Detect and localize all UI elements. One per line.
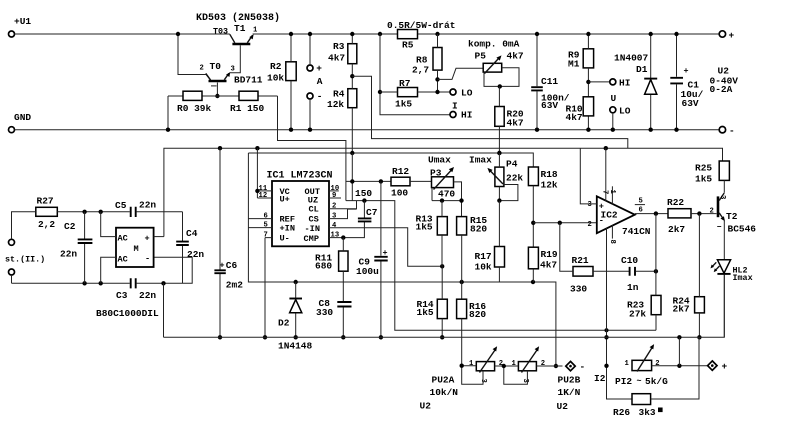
- potentiometer PU2A: [476, 362, 494, 371]
- svg-text:2: 2: [710, 208, 714, 216]
- wire R8 column: [437, 34, 439, 92]
- svg-text:R26: R26: [613, 407, 630, 418]
- svg-text:C7: C7: [366, 207, 378, 218]
- wire R1 to IC1 OUT column: [278, 96, 346, 201]
- svg-text:R21: R21: [572, 255, 589, 266]
- svg-text:+IN: +IN: [280, 224, 295, 234]
- svg-text:680: 680: [315, 261, 332, 272]
- svg-text:330: 330: [570, 284, 587, 295]
- resistor R27: [36, 207, 58, 216]
- svg-text:C10: C10: [621, 255, 638, 266]
- wire CL/CS node line: [346, 201, 656, 331]
- diode D2: [295, 282, 297, 337]
- svg-text:R1 150: R1 150: [230, 103, 265, 114]
- terminal + output: [719, 31, 725, 37]
- svg-text:22n: 22n: [187, 249, 204, 260]
- resistor R19: [528, 247, 538, 269]
- wire HI tap column: [380, 34, 450, 115]
- svg-text:CL: CL: [309, 204, 319, 214]
- terminal LO (voltage): [610, 107, 616, 113]
- resistor R11: [339, 251, 348, 271]
- svg-text:+: +: [722, 361, 728, 372]
- wire IC2 +in from bus: [580, 148, 597, 204]
- wire P3 bracket: [432, 182, 462, 217]
- svg-text:I2: I2: [594, 373, 606, 384]
- svg-text:st.(II.): st.(II.): [5, 255, 45, 265]
- capacitor C5: [131, 207, 136, 217]
- svg-text:HI: HI: [461, 110, 472, 121]
- svg-text:2: 2: [588, 221, 592, 229]
- svg-text:150: 150: [355, 188, 372, 199]
- svg-text:R18: R18: [541, 169, 558, 180]
- svg-text:22k: 22k: [506, 173, 523, 184]
- svg-text:-: -: [580, 362, 586, 373]
- svg-text:3: 3: [231, 66, 235, 74]
- resistor R13: [437, 217, 447, 235]
- wire AC1 to bridge: [101, 212, 116, 237]
- svg-text:T1: T1: [234, 23, 246, 34]
- svg-text:Imax: Imax: [469, 155, 492, 166]
- wire AC2 to bridge: [101, 257, 116, 283]
- terminal st input bottom: [9, 269, 15, 275]
- svg-text:-: -: [599, 216, 604, 226]
- potentiometer PU2B: [518, 362, 536, 371]
- svg-text:3: 3: [588, 201, 592, 209]
- wire R9-R10 column: [587, 34, 589, 130]
- svg-text:63V: 63V: [682, 98, 699, 109]
- svg-text:D2: D2: [278, 318, 290, 329]
- svg-text:6: 6: [264, 213, 268, 221]
- capacitor C11: [536, 34, 538, 130]
- svg-text:T0: T0: [210, 61, 222, 72]
- svg-text:2k7: 2k7: [673, 304, 690, 315]
- svg-text:T2: T2: [726, 211, 738, 222]
- wire REF/+IN column and sense line y282: [248, 153, 556, 366]
- svg-text:-: -: [145, 254, 150, 264]
- svg-text:100u: 100u: [356, 266, 379, 277]
- potentiometer P5: [483, 63, 502, 72]
- svg-text:LO: LO: [461, 88, 473, 99]
- svg-text:C4: C4: [186, 228, 198, 239]
- svg-text:2,7: 2,7: [412, 65, 429, 76]
- svg-text:1N4007: 1N4007: [614, 53, 649, 64]
- capacitor C9: [380, 181, 382, 337]
- svg-text:8: 8: [608, 240, 616, 244]
- svg-text:7: 7: [601, 190, 609, 194]
- transistor T1: [232, 43, 250, 46]
- resistor R7: [398, 88, 418, 97]
- svg-text:D1: D1: [636, 64, 648, 75]
- wire to HI terminal: [588, 81, 609, 83]
- wire ref bus y153: [248, 153, 533, 167]
- pin 1 IC2: [611, 186, 613, 204]
- terminal +U1: [9, 31, 15, 37]
- svg-text:-: -: [317, 91, 323, 102]
- wire P5 wiper bracket: [484, 68, 519, 87]
- transistor T0: [209, 80, 227, 83]
- svg-text:R7: R7: [399, 78, 411, 89]
- svg-text:R19: R19: [541, 249, 558, 260]
- wire PU2A feed and bracket: [462, 366, 483, 385]
- resistor R20: [495, 107, 504, 127]
- svg-text:BC546: BC546: [728, 224, 757, 235]
- wire top rail right of T1: [253, 33, 720, 35]
- resistor R0: [183, 91, 202, 100]
- capacitor C2: [84, 212, 86, 283]
- svg-text:1K/N: 1K/N: [558, 387, 581, 398]
- svg-text:HI: HI: [619, 78, 630, 89]
- LED HL2: [723, 221, 725, 337]
- pin 4 IC2 down to minus bus and PI2: [607, 228, 633, 399]
- svg-text:2m2: 2m2: [226, 280, 243, 291]
- svg-text:C3: C3: [116, 290, 128, 301]
- terminal A minus: [307, 93, 313, 99]
- svg-text:GND: GND: [14, 112, 31, 123]
- svg-text:R3: R3: [333, 41, 345, 52]
- svg-text:IC1 LM723CN: IC1 LM723CN: [267, 171, 333, 182]
- svg-text:PU2B: PU2B: [558, 375, 581, 386]
- svg-text:1k5: 1k5: [416, 222, 433, 233]
- potentiometer PI2: [632, 360, 652, 370]
- capacitor C3: [131, 278, 136, 288]
- wire input bottom: [12, 257, 193, 283]
- svg-text:2k7: 2k7: [668, 224, 685, 235]
- resistor R26: [632, 394, 651, 405]
- wire GND rail: [15, 129, 720, 131]
- svg-text:2,2: 2,2: [38, 219, 55, 230]
- svg-text:4k7: 4k7: [328, 53, 345, 64]
- capacitor C4: [182, 212, 184, 283]
- IC1 op-amp regulator LM723CN: [272, 181, 329, 246]
- resistor R21: [573, 267, 593, 277]
- pin 7 IC2: [605, 148, 607, 201]
- terminal GND: [9, 127, 15, 133]
- wire bridge plus: [154, 236, 164, 238]
- wire T0 collector feed: [178, 34, 211, 80]
- wire R2 column: [290, 34, 292, 130]
- capacitor C8: [342, 271, 344, 337]
- svg-text:12k: 12k: [327, 99, 344, 110]
- svg-text:27k: 27k: [629, 309, 646, 320]
- resistor R4: [348, 89, 357, 108]
- svg-text:R12: R12: [392, 166, 409, 177]
- capacitor C6: [219, 148, 221, 337]
- wire T1 base to T0 emitter: [230, 45, 241, 73]
- svg-text:T03: T03: [213, 27, 228, 37]
- terminal - output: [719, 127, 725, 133]
- svg-text:2: 2: [332, 203, 336, 211]
- svg-text:1N4148: 1N4148: [278, 341, 313, 352]
- svg-text:+: +: [316, 63, 322, 74]
- wire P4 wiper bracket: [499, 185, 518, 201]
- svg-text:4k7: 4k7: [540, 260, 557, 271]
- svg-text:B80C1000DIL: B80C1000DIL: [96, 308, 159, 319]
- svg-text:1k5: 1k5: [417, 307, 434, 318]
- svg-text:9: 9: [332, 192, 336, 200]
- terminal HI (current): [450, 112, 456, 118]
- svg-text:10k/N: 10k/N: [430, 387, 459, 398]
- resistor R3: [348, 44, 357, 64]
- wire IC2 inverting input line: [533, 222, 597, 224]
- svg-text:komp. 0mA: komp. 0mA: [468, 39, 520, 50]
- svg-text:PU2A: PU2A: [432, 375, 455, 386]
- svg-text:820: 820: [470, 224, 487, 235]
- svg-text:820: 820: [469, 309, 486, 320]
- svg-text:R4: R4: [333, 89, 345, 100]
- svg-text:-: -: [729, 126, 735, 137]
- svg-text:1: 1: [253, 27, 258, 35]
- wire R0 left leg: [167, 96, 169, 130]
- svg-text:3: 3: [718, 195, 726, 199]
- svg-text:5: 5: [264, 222, 268, 230]
- resistor R18: [528, 167, 538, 186]
- svg-text:M1: M1: [568, 59, 580, 70]
- svg-text:+: +: [220, 261, 225, 271]
- resistor R14: [437, 299, 447, 318]
- wire LO to GND: [612, 113, 614, 130]
- svg-text:330: 330: [316, 307, 333, 318]
- wire top rail left: [15, 33, 230, 35]
- wire A terminals: [309, 34, 311, 130]
- op-amp IC2 741CN: [597, 196, 635, 233]
- svg-text:+U1: +U1: [14, 16, 31, 27]
- terminal minus sense: [566, 361, 575, 370]
- svg-text:7: 7: [264, 232, 268, 240]
- svg-text:5k/G: 5k/G: [645, 376, 668, 387]
- svg-text:4k7: 4k7: [566, 112, 583, 123]
- svg-text:1k5: 1k5: [695, 174, 712, 185]
- terminal HI (voltage): [610, 79, 616, 85]
- wire R20 column: [498, 86, 500, 153]
- wire R7 row: [380, 91, 450, 93]
- svg-text:+: +: [729, 30, 735, 41]
- resistor R10: [583, 97, 593, 116]
- svg-text:10k: 10k: [267, 73, 284, 84]
- svg-text:+: +: [684, 66, 689, 76]
- svg-text:R5: R5: [402, 40, 414, 51]
- svg-text:C6: C6: [226, 260, 238, 271]
- resistor R2: [286, 62, 296, 81]
- wire input top: [12, 212, 183, 240]
- svg-text:22n: 22n: [139, 290, 156, 301]
- wire PU2A to PU2B: [495, 366, 528, 384]
- svg-text:P5: P5: [475, 51, 487, 62]
- resistor R5: [398, 30, 418, 39]
- svg-text:12: 12: [259, 192, 268, 200]
- diode D1: [650, 34, 652, 130]
- svg-text:AC: AC: [118, 234, 128, 244]
- resistor R9: [583, 49, 593, 68]
- svg-text:22n: 22n: [60, 249, 77, 260]
- svg-text:22n: 22n: [139, 200, 156, 211]
- svg-text:63V: 63V: [541, 100, 558, 111]
- transistor T2: [717, 196, 720, 217]
- resistor R23: [651, 295, 661, 314]
- svg-text:10k: 10k: [475, 262, 492, 273]
- wire IC2 output: [635, 213, 668, 215]
- resistor R24: [695, 297, 705, 313]
- svg-text:Imax: Imax: [733, 273, 753, 283]
- svg-text:-IN: -IN: [305, 224, 320, 234]
- svg-text:P4: P4: [506, 159, 518, 170]
- resistor R15: [457, 217, 467, 235]
- svg-text:4: 4: [332, 222, 337, 230]
- svg-text:CMP: CMP: [304, 234, 319, 244]
- resistor R25: [719, 161, 729, 180]
- wire T0 base: [216, 83, 218, 97]
- wire +raw bus y148: [164, 148, 723, 236]
- svg-text:100: 100: [391, 188, 408, 199]
- svg-text:P3: P3: [430, 167, 442, 178]
- svg-text:0.5R/5W-drát: 0.5R/5W-drát: [387, 20, 455, 31]
- svg-text:M: M: [134, 244, 139, 254]
- svg-text:4k7: 4k7: [507, 51, 524, 62]
- svg-text:C5: C5: [115, 200, 127, 211]
- wire R3/R4 junction to bus: [352, 76, 628, 148]
- svg-text:4k7: 4k7: [507, 118, 524, 129]
- resistor R12: [391, 177, 410, 186]
- svg-text:741CN: 741CN: [622, 226, 651, 237]
- svg-text:A: A: [317, 76, 323, 87]
- wire PU2B to terminal: [536, 365, 562, 367]
- svg-text:+: +: [599, 202, 604, 212]
- svg-text:R27: R27: [37, 196, 54, 207]
- svg-text:2: 2: [200, 65, 204, 73]
- svg-text:R22: R22: [667, 197, 684, 208]
- svg-text:R2: R2: [270, 61, 282, 72]
- wire PI2 to plus terminal: [652, 365, 709, 367]
- svg-text:0-2A: 0-2A: [710, 84, 733, 95]
- capacitor C7: [363, 201, 365, 218]
- wire R3-R4 column: [351, 34, 353, 153]
- svg-text:R25: R25: [695, 163, 712, 174]
- svg-text:12k: 12k: [541, 180, 558, 191]
- svg-text:3: 3: [332, 213, 336, 221]
- potentiometer P4: [495, 167, 504, 186]
- svg-text:PI2: PI2: [615, 376, 632, 387]
- bridge rectifier B80C1000DIL: [116, 228, 154, 267]
- svg-text:R0 39k: R0 39k: [177, 103, 212, 114]
- resistor R1: [239, 91, 258, 100]
- svg-text:KD503 (2N5038): KD503 (2N5038): [196, 12, 280, 24]
- resistor R16: [457, 299, 467, 318]
- svg-text:C11: C11: [541, 76, 558, 87]
- svg-text:~: ~: [637, 376, 642, 386]
- wire R0-R1 row: [168, 95, 278, 97]
- svg-text:U+: U+: [280, 195, 290, 205]
- capacitor C1: [676, 34, 678, 130]
- svg-text:+: +: [145, 234, 150, 244]
- svg-text:2: 2: [541, 360, 545, 368]
- wire P4 top: [498, 153, 500, 167]
- svg-text:U2: U2: [420, 401, 432, 412]
- resistor R22: [668, 209, 691, 218]
- svg-text:1n: 1n: [627, 282, 639, 293]
- svg-text:C2: C2: [64, 221, 76, 232]
- svg-text:470: 470: [438, 189, 455, 200]
- wire R26 loop: [651, 337, 699, 399]
- wire R4 node down: [351, 153, 353, 201]
- svg-text:BD711: BD711: [234, 75, 263, 86]
- svg-text:1: 1: [512, 360, 517, 368]
- svg-text:U: U: [611, 93, 617, 104]
- svg-text:13: 13: [331, 232, 340, 240]
- svg-text:U2: U2: [557, 401, 569, 412]
- resistor R17: [495, 247, 505, 268]
- terminal A plus: [307, 65, 313, 71]
- svg-text:1k5: 1k5: [395, 99, 412, 110]
- wire plus sense vertical: [678, 337, 680, 366]
- terminal st input top: [9, 239, 15, 245]
- svg-text:3k3: 3k3: [639, 407, 656, 418]
- terminal LO (current): [450, 89, 456, 95]
- svg-text:AC: AC: [118, 255, 128, 265]
- svg-text:R17: R17: [475, 251, 492, 262]
- wire out line y181: [346, 180, 391, 182]
- pin 8 IC2: [611, 225, 613, 239]
- svg-text:Umax: Umax: [428, 155, 451, 166]
- wire R8 junction to P5: [438, 68, 484, 79]
- wire frame minus drop: [163, 283, 165, 337]
- svg-text:U-: U-: [280, 234, 290, 244]
- svg-text:2: 2: [655, 360, 659, 368]
- capacitor C10: [630, 267, 635, 276]
- resistor R8: [433, 48, 442, 71]
- svg-text:LO: LO: [619, 106, 631, 117]
- svg-text:1: 1: [469, 360, 474, 368]
- terminal plus sense: [708, 361, 717, 370]
- svg-text:1: 1: [608, 190, 616, 195]
- wire minus bus y337: [164, 275, 725, 338]
- svg-text:I: I: [452, 101, 458, 112]
- svg-text:1: 1: [625, 360, 630, 368]
- potentiometer P3: [432, 177, 454, 188]
